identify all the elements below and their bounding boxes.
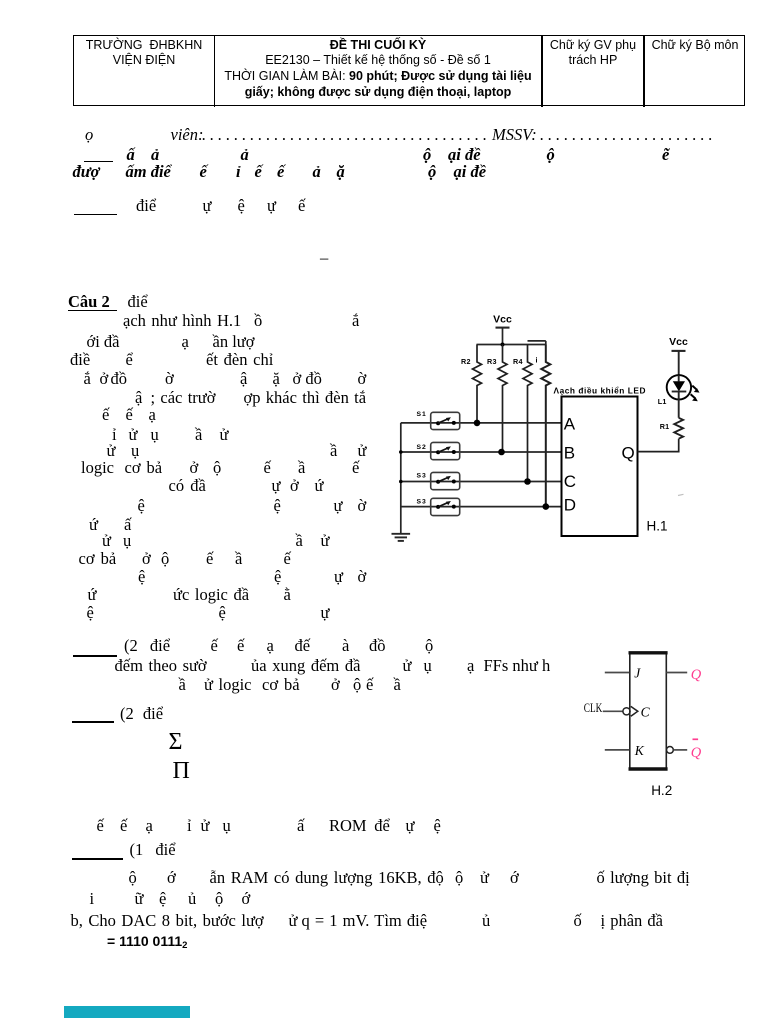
- clock bubble: [623, 708, 630, 715]
- svg-text:S3: S3: [417, 499, 427, 506]
- svg-text:D: D: [564, 495, 576, 514]
- svg-text:J: J: [634, 666, 641, 681]
- Qbar bubble: [667, 747, 674, 754]
- svg-text:S1: S1: [417, 411, 427, 418]
- svg-text:i: i: [536, 356, 538, 365]
- wire CLK: [603, 710, 623, 712]
- wire Q output: [666, 672, 687, 674]
- header table column rule 2: [541, 35, 543, 107]
- resistor R3: [487, 345, 507, 453]
- node B junction: [498, 449, 505, 456]
- svg-text:C: C: [564, 472, 576, 491]
- LED L1: [658, 375, 691, 406]
- switch S4 (labelled S3): [417, 498, 460, 515]
- wire input D: [401, 506, 562, 508]
- svg-text:H.2: H.2: [651, 783, 672, 798]
- Vcc power symbol (LED branch): [669, 336, 688, 376]
- svg-text:C: C: [641, 704, 651, 719]
- ground: [392, 534, 411, 541]
- Vcc power symbol (resistor network): [493, 314, 512, 345]
- svg-text:L1: L1: [658, 397, 667, 406]
- JK flip-flop box U2: [629, 652, 668, 770]
- resistor i (4th pull-up): [536, 345, 551, 507]
- node D junction: [543, 503, 550, 510]
- wire R1 to Q: [638, 439, 679, 452]
- node C junction: [524, 478, 531, 485]
- LED light arrows: [691, 386, 700, 402]
- svg-text:B: B: [564, 443, 575, 462]
- svg-text:Q: Q: [622, 443, 635, 462]
- svg-text:Q: Q: [691, 745, 702, 761]
- svg-text:CLK: CLK: [584, 700, 603, 715]
- faint speck: [678, 494, 684, 495]
- header cell: GV signature: [543, 38, 643, 70]
- svg-text:Λạch điều khiển LED: Λạch điều khiển LED: [554, 385, 647, 395]
- svg-text:Vcc: Vcc: [493, 314, 512, 326]
- header table frame: [73, 35, 745, 106]
- svg-text:K: K: [634, 743, 645, 758]
- svg-text:R2: R2: [461, 357, 471, 366]
- bottom teal bar: [64, 1006, 190, 1018]
- svg-text:R3: R3: [487, 357, 497, 366]
- LED control block box U1: [562, 397, 638, 537]
- header table column rule 3: [643, 35, 645, 107]
- wire K input: [605, 749, 630, 751]
- wire input A: [401, 422, 562, 424]
- svg-text:S3: S3: [417, 473, 427, 480]
- header cell: Bo mon signature: [645, 38, 745, 54]
- wire J input: [605, 672, 630, 674]
- clock edge triangle: [631, 706, 638, 716]
- svg-text:Q: Q: [691, 667, 702, 683]
- junction on rail: [501, 343, 505, 347]
- svg-text:A: A: [564, 414, 576, 433]
- header cell: school: [74, 38, 214, 70]
- switch S3: [417, 472, 460, 489]
- node A junction: [474, 420, 481, 427]
- resistor R4: [513, 345, 532, 482]
- switch S2: [417, 442, 460, 459]
- wire Qbar output: [673, 749, 687, 751]
- svg-text:H.1: H.1: [647, 519, 668, 534]
- wire input B: [401, 451, 562, 453]
- wire LED to R1: [678, 392, 680, 418]
- svg-text:R4: R4: [513, 357, 523, 366]
- header cell: exam title: [215, 38, 541, 101]
- svg-text:S2: S2: [417, 444, 427, 451]
- wire input C: [401, 481, 562, 483]
- svg-text:R1: R1: [660, 422, 670, 431]
- resistor R1: [660, 418, 683, 439]
- Vcc rail wire: [477, 341, 546, 345]
- svg-text:Vcc: Vcc: [669, 336, 688, 348]
- header table column rule 1: [214, 35, 216, 107]
- resistor R2: [461, 345, 482, 423]
- label Qbar (pink): [691, 739, 702, 761]
- switch S1: [417, 411, 460, 430]
- left ground bus wire: [399, 423, 403, 534]
